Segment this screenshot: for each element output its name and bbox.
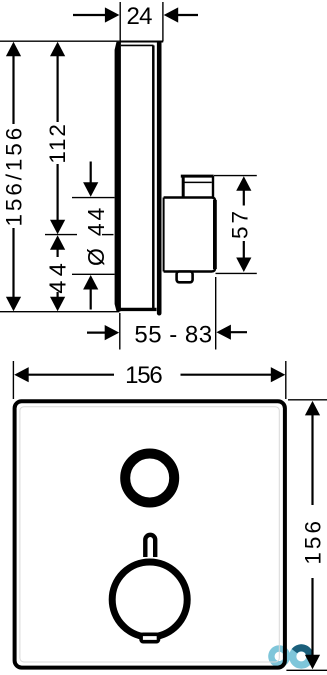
body plate side view: left thick edge with chamfers bbox=[115, 42, 121, 311]
dimension 156 right: line with arrows bbox=[305, 401, 320, 669]
body plate side view: right thin line bbox=[152, 45, 155, 309]
body plate side view: bottom thick edge bbox=[120, 308, 157, 311]
svg-text:57: 57 bbox=[228, 208, 253, 239]
faint inner outline of plate bbox=[20, 407, 279, 662]
body plate side view: right thick line bbox=[157, 42, 162, 314]
dimension 55-83: left extension line bbox=[119, 313, 121, 350]
thermostat knob bottom tab bbox=[141, 634, 158, 641]
plate outline front view bbox=[15, 401, 285, 667]
o dark teal upper crescent bbox=[292, 644, 314, 658]
svg-text:55 - 83: 55 - 83 bbox=[134, 322, 212, 349]
dimension D44: upper arrow and extension bbox=[72, 162, 115, 198]
c ring light blue bbox=[268, 645, 290, 667]
dimension 156 right: bottom extension bbox=[286, 669, 327, 671]
svg-text:44: 44 bbox=[45, 259, 71, 294]
dimension D44: lower arrow and extension bbox=[72, 274, 115, 309]
body plate side view: inner top line bbox=[121, 44, 154, 46]
dimension 57: line with arrows bbox=[236, 176, 251, 272]
top extension line of body bbox=[0, 40, 163, 42]
dimension 156 top: right arrow bbox=[181, 367, 286, 382]
dimension 156 right: top extension bbox=[288, 399, 327, 401]
dimension 55-83: right arrow bbox=[216, 325, 247, 340]
dimension 156 top: right extension bbox=[285, 361, 287, 399]
svg-text:156: 156 bbox=[300, 518, 325, 565]
dimension 24: right extension line bbox=[162, 2, 164, 41]
svg-text:Ø 44: Ø 44 bbox=[83, 205, 109, 266]
select button circle bbox=[125, 454, 174, 503]
watermark logo bottom right bbox=[268, 644, 313, 668]
svg-text:156/156: 156/156 bbox=[1, 125, 26, 227]
dimension 156/156: vertical line with arrows bbox=[6, 42, 21, 312]
dimension 112: vertical line with arrows bbox=[50, 42, 65, 235]
dimension 44: vertical line with arrows bbox=[50, 235, 65, 311]
bottom extension line of body bbox=[0, 311, 120, 313]
svg-text:24: 24 bbox=[127, 3, 153, 30]
o ring light blue bbox=[289, 644, 313, 668]
tick at 112/44 boundary bbox=[45, 234, 77, 236]
dimension 24: left extension line bbox=[119, 2, 121, 41]
dimension 57: bottom extension line bbox=[216, 272, 257, 274]
dimension 24: left arrow bbox=[73, 7, 119, 22]
function block bottom tab bbox=[177, 272, 193, 283]
dimension 55-83: left arrow bbox=[87, 325, 119, 340]
thermostat knob marker pin bbox=[145, 535, 155, 557]
function block body bbox=[164, 198, 216, 272]
function block cap bbox=[181, 176, 214, 198]
svg-text:156: 156 bbox=[125, 362, 162, 389]
dimension 156 top: left extension bbox=[12, 361, 14, 399]
thermostat knob circle bbox=[112, 562, 187, 637]
dimension 55-83: right extension line bbox=[215, 277, 217, 350]
dimension 57: top extension line bbox=[214, 175, 257, 177]
dimension 24: right arrow bbox=[164, 7, 198, 22]
svg-text:112: 112 bbox=[45, 122, 70, 163]
dimension 156 top: left arrow bbox=[14, 367, 114, 382]
body plate side view: top edge bbox=[120, 41, 163, 43]
